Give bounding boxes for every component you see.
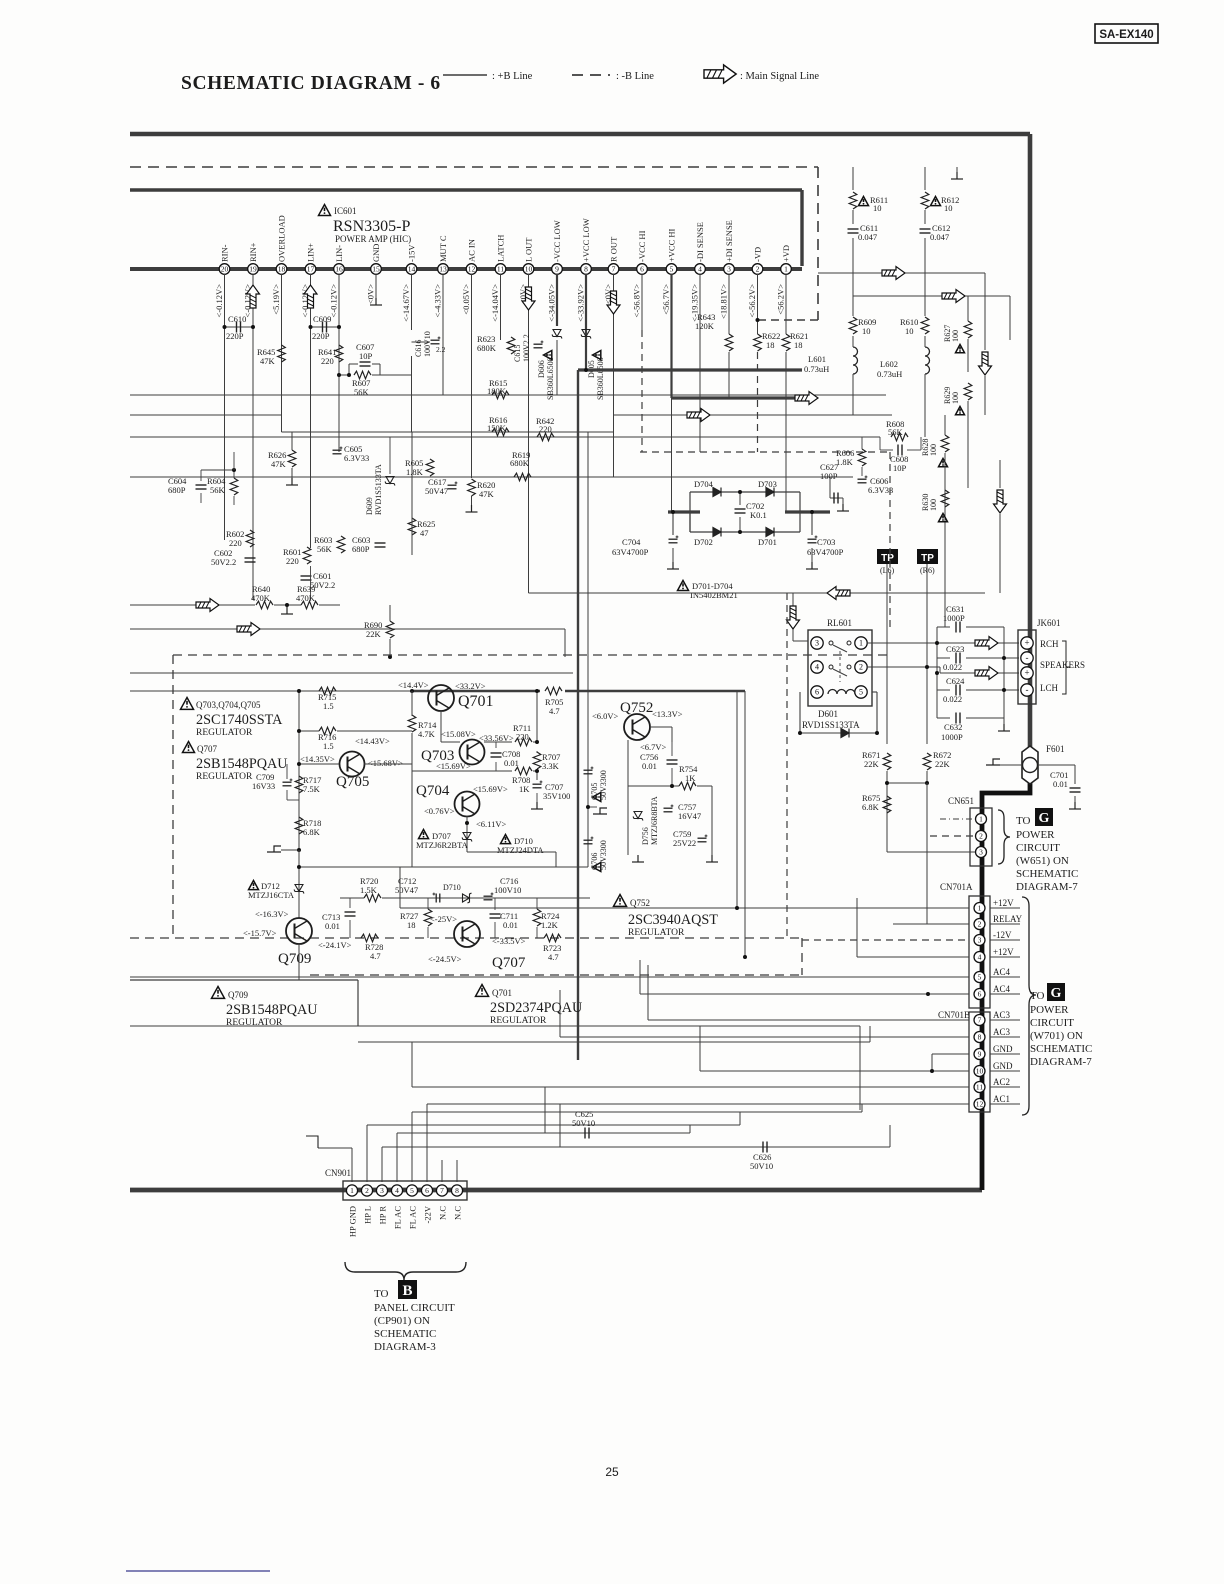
- svg-text:2SD2374PQAU: 2SD2374PQAU: [490, 1000, 582, 1016]
- wire pin6 drop dashed: [641, 330, 643, 452]
- svg-text:MTZJ6R2BTA: MTZJ6R2BTA: [416, 840, 469, 850]
- svg-text:150K: 150K: [487, 423, 507, 433]
- svg-text:<0.76V>: <0.76V>: [424, 806, 455, 816]
- svg-text:2: 2: [859, 663, 863, 672]
- svg-text:<-16.3V>: <-16.3V>: [255, 909, 289, 919]
- svg-text:F601: F601: [1046, 744, 1065, 754]
- svg-text:1.5: 1.5: [323, 741, 334, 751]
- svg-text:JK601: JK601: [1037, 618, 1061, 628]
- wire pin6 drop: [641, 274, 643, 330]
- svg-text:REGULATOR: REGULATOR: [196, 772, 253, 782]
- transistor Q707: [454, 921, 480, 947]
- diode D601: [799, 692, 801, 733]
- svg-text:3: 3: [380, 1186, 384, 1195]
- IC601 pin 9: [552, 264, 563, 275]
- wire C609 row: [311, 326, 340, 328]
- wire pin1 drop: [785, 274, 787, 334]
- wire bus y477: [130, 476, 853, 478]
- svg-text:D609: D609: [365, 497, 374, 515]
- svg-text:<-24.5V>: <-24.5V>: [428, 954, 462, 964]
- svg-text:50V47: 50V47: [425, 486, 448, 496]
- svg-text:Q709: Q709: [278, 951, 311, 967]
- svg-text:1.5: 1.5: [323, 701, 334, 711]
- wire CN901 p2: [366, 1125, 368, 1182]
- svg-text:POWER: POWER: [1016, 829, 1055, 841]
- vertical wire x588: [587, 432, 589, 867]
- svg-text:C623: C623: [946, 644, 964, 654]
- svg-text:RIN+: RIN+: [248, 242, 258, 262]
- wire x545 drop: [544, 1087, 546, 1133]
- wire y771: [412, 770, 512, 772]
- wire y1112: [412, 1111, 862, 1113]
- zener D756: [633, 812, 643, 821]
- +B bus top: [130, 132, 1030, 137]
- svg-text:8: 8: [978, 1033, 982, 1042]
- svg-text:L602: L602: [880, 359, 898, 369]
- IC601 pin 20: [219, 264, 230, 275]
- wire AC4 to p6: [640, 993, 969, 995]
- svg-text:REGULATOR: REGULATOR: [490, 1016, 547, 1026]
- resistor R609: [849, 317, 857, 334]
- ground Q752 b: [706, 855, 718, 862]
- svg-text:220: 220: [516, 732, 529, 742]
- IC601 pin 6: [637, 264, 648, 275]
- resistor R672: [923, 753, 931, 770]
- svg-text:CN651: CN651: [948, 796, 974, 806]
- svg-text:47K: 47K: [260, 356, 276, 366]
- svg-text:22K: 22K: [864, 759, 880, 769]
- svg-text:AC3: AC3: [993, 1010, 1011, 1020]
- wire LCH+ row: [940, 672, 1019, 674]
- resistor R723: [544, 934, 561, 942]
- wire y691: [130, 690, 412, 692]
- svg-text:100V2.2: 100V2.2: [522, 334, 531, 362]
- svg-text:RSN3305-P: RSN3305-P: [333, 218, 410, 235]
- svg-text:Q707: Q707: [492, 955, 526, 971]
- resistor R724: [533, 909, 541, 926]
- resistor R705: [545, 687, 562, 695]
- svg-text:50V47: 50V47: [395, 885, 418, 895]
- wire AC4 to p5: [130, 976, 969, 978]
- wire pin20 drop: [224, 274, 226, 540]
- test point TP (R6): [917, 549, 938, 564]
- svg-text:SCHEMATIC: SCHEMATIC: [1016, 868, 1078, 880]
- note Q709 2SB1548PQAU: [212, 987, 225, 999]
- svg-text:D703: D703: [758, 479, 777, 489]
- resistor R675: [883, 796, 891, 813]
- signal arrow RCH: [975, 637, 998, 650]
- svg-text:B: B: [402, 1283, 412, 1299]
- resistor R707: [533, 752, 541, 769]
- legend -B line: [572, 74, 610, 76]
- svg-text:22K: 22K: [366, 629, 382, 639]
- wire CN651 p1: [940, 818, 975, 820]
- svg-text:6: 6: [425, 1186, 429, 1195]
- IC601 pin 19: [248, 264, 259, 275]
- wire pin4 drop: [699, 274, 701, 452]
- Q701 base drop: [440, 711, 442, 742]
- svg-text:50V10: 50V10: [750, 1161, 773, 1171]
- svg-text:4: 4: [978, 953, 982, 962]
- svg-text:FL AC: FL AC: [408, 1206, 418, 1229]
- svg-text:DIAGRAM-7: DIAGRAM-7: [1030, 1056, 1092, 1068]
- note D701-D704: [678, 581, 689, 591]
- svg-text:D702: D702: [694, 537, 713, 547]
- note 2SC1740SSTA: [181, 698, 194, 710]
- svg-text:G: G: [1039, 811, 1050, 826]
- wire pin8 drop thick: [585, 274, 587, 370]
- resistor R621: [782, 334, 790, 351]
- dashed vertical x787: [786, 593, 788, 938]
- svg-text:RCH: RCH: [1040, 639, 1059, 649]
- svg-text:<13.3V>: <13.3V>: [652, 709, 683, 719]
- svg-text:1000P: 1000P: [943, 613, 965, 623]
- svg-text:L OUT: L OUT: [524, 237, 534, 262]
- wire bus y395: [130, 394, 886, 396]
- svg-text:DIAGRAM-3: DIAGRAM-3: [374, 1341, 436, 1353]
- IC601 pin 15: [371, 264, 382, 275]
- transistor Q705: [340, 752, 365, 777]
- svg-text:100: 100: [951, 330, 960, 342]
- wire CN901 p1: [351, 1148, 353, 1182]
- svg-text:MTZJ6R8BTA: MTZJ6R8BTA: [650, 796, 659, 845]
- -B bus dashed: [130, 166, 818, 168]
- svg-text:220: 220: [229, 538, 242, 548]
- svg-text:MUT C: MUT C: [438, 235, 448, 262]
- svg-text:PANEL CIRCUIT: PANEL CIRCUIT: [374, 1302, 455, 1314]
- svg-text:<-33.5V>: <-33.5V>: [492, 936, 526, 946]
- svg-text:C703: C703: [817, 537, 835, 547]
- svg-text:63V4700P: 63V4700P: [612, 547, 649, 557]
- wire left entry y605: [130, 604, 255, 606]
- wire x745: [744, 691, 746, 957]
- svg-text:2SC1740SSTA: 2SC1740SSTA: [196, 712, 283, 728]
- svg-text:2: 2: [979, 832, 983, 841]
- svg-text:+VCC HI: +VCC HI: [667, 228, 677, 262]
- svg-text:180K: 180K: [487, 386, 507, 396]
- svg-text:-12V: -12V: [993, 930, 1012, 940]
- svg-text:<-0.12V>: <-0.12V>: [329, 284, 339, 318]
- wire CN901 p8 stub: [456, 1160, 458, 1182]
- svg-text:TO: TO: [1016, 815, 1031, 827]
- note 2SC3940AQST: [614, 895, 627, 907]
- svg-text:(CP901) ON: (CP901) ON: [374, 1315, 430, 1327]
- svg-text:220: 220: [321, 356, 334, 366]
- svg-text:6: 6: [640, 265, 644, 274]
- svg-text:220P: 220P: [226, 331, 244, 341]
- svg-text:RIN-: RIN-: [220, 244, 230, 262]
- wire pin5 drop thick: [670, 274, 672, 398]
- svg-text:2.2: 2.2: [436, 345, 446, 354]
- svg-text:+12V: +12V: [993, 947, 1014, 957]
- legend main signal arrow: [704, 65, 736, 83]
- IC601 pin 7: [608, 264, 619, 275]
- signal arrow down relay: [787, 606, 800, 629]
- svg-text:<56.7V>: <56.7V>: [661, 284, 671, 315]
- svg-text:1K: 1K: [685, 773, 696, 783]
- svg-text:N.C: N.C: [453, 1206, 463, 1220]
- svg-text:16V47: 16V47: [678, 811, 701, 821]
- svg-text:6: 6: [815, 688, 819, 697]
- svg-text:2: 2: [756, 265, 760, 274]
- resistor R715: [319, 687, 336, 695]
- svg-text:GND: GND: [993, 1061, 1013, 1071]
- wire pin19 drop: [252, 274, 254, 600]
- svg-text:SCHEMATIC DIAGRAM - 6: SCHEMATIC DIAGRAM - 6: [181, 73, 441, 94]
- capacitor C702: [739, 492, 741, 505]
- svg-text:2SB1548PQAU: 2SB1548PQAU: [226, 1002, 317, 1018]
- capacitor C624: [956, 685, 960, 696]
- svg-text:N.C: N.C: [438, 1206, 448, 1220]
- capacitor C623: [956, 653, 960, 664]
- relay contacts: [829, 641, 833, 645]
- diode D703: [766, 488, 774, 497]
- legend +B line: [443, 74, 487, 76]
- svg-text:<-56.8V>: <-56.8V>: [632, 284, 642, 318]
- model number box SA-EX140: [1095, 24, 1158, 43]
- svg-text:0.01: 0.01: [325, 921, 340, 931]
- svg-text:<56.2V>: <56.2V>: [776, 284, 786, 315]
- svg-text:TO: TO: [374, 1288, 389, 1300]
- svg-text:<15.69V>: <15.69V>: [473, 784, 508, 794]
- svg-text:0.047: 0.047: [930, 232, 949, 242]
- svg-text:AC4: AC4: [993, 967, 1011, 977]
- svg-text:IN5402BM21: IN5402BM21: [690, 590, 738, 600]
- svg-text:+12V: +12V: [993, 898, 1014, 908]
- svg-text:-VCC LOW: -VCC LOW: [552, 220, 562, 262]
- speaker bracket: [1062, 641, 1070, 694]
- svg-text:7: 7: [440, 1186, 444, 1195]
- fuse F601: [1022, 746, 1038, 784]
- svg-text:CN701B: CN701B: [938, 1010, 970, 1020]
- svg-text:220P: 220P: [312, 331, 330, 341]
- svg-text:AC1: AC1: [993, 1094, 1010, 1104]
- wire pin2 drop: [757, 274, 759, 334]
- svg-text:Q709: Q709: [228, 990, 248, 1000]
- thick power line to connectors: [982, 748, 1030, 1190]
- wire bus y437: [130, 436, 880, 438]
- note D710: [501, 835, 511, 844]
- svg-text:TP: TP: [881, 553, 894, 564]
- resistor R718: [295, 817, 303, 834]
- svg-text:9: 9: [978, 1050, 982, 1059]
- svg-text:16: 16: [335, 265, 343, 274]
- svg-text:2: 2: [978, 920, 982, 929]
- capacitor C625: [585, 1128, 589, 1139]
- bridge left node thick: [668, 510, 700, 513]
- svg-text:6.8K: 6.8K: [862, 802, 880, 812]
- wire pin12 drop: [471, 274, 473, 478]
- svg-text:SPEAKERS: SPEAKERS: [1040, 660, 1085, 670]
- svg-text:<-15.7V>: <-15.7V>: [243, 928, 277, 938]
- svg-text:(W701) ON: (W701) ON: [1030, 1030, 1083, 1042]
- resistor R625: [408, 518, 416, 535]
- svg-text:<33.2V>: <33.2V>: [455, 681, 486, 691]
- -B dashed y452: [640, 451, 892, 453]
- svg-text:10: 10: [873, 203, 882, 213]
- wire y1125: [367, 1124, 740, 1126]
- svg-text:MTZJ24DTA: MTZJ24DTA: [497, 845, 544, 855]
- svg-text:100P: 100P: [820, 471, 838, 481]
- svg-text:47K: 47K: [479, 489, 495, 499]
- svg-text:11: 11: [497, 265, 504, 274]
- svg-text:SA-EX140: SA-EX140: [1099, 29, 1153, 41]
- svg-text:Q705: Q705: [336, 774, 369, 790]
- diode D704: [713, 488, 721, 497]
- svg-text:0.022: 0.022: [943, 694, 962, 704]
- svg-text:680P: 680P: [352, 544, 370, 554]
- bottom border thick: [130, 1188, 982, 1193]
- wire pin10 drop: [528, 274, 530, 593]
- svg-text:470K: 470K: [296, 593, 316, 603]
- wire GND p10: [700, 1070, 969, 1072]
- svg-text:56K: 56K: [888, 427, 904, 437]
- svg-text:-VCC HI: -VCC HI: [637, 230, 647, 262]
- wire y593: [529, 592, 986, 594]
- wire left entry y629: [130, 628, 565, 630]
- svg-text:5: 5: [859, 688, 863, 697]
- signal arrows right top: [818, 272, 985, 274]
- bridge right node thick: [785, 510, 830, 513]
- capacitor C610: [237, 322, 241, 333]
- svg-text:470K: 470K: [251, 593, 271, 603]
- wire AC1 to p12: [427, 1103, 969, 1105]
- svg-text:CIRCUIT: CIRCUIT: [1030, 1017, 1074, 1029]
- -B dashed left x173: [172, 655, 174, 938]
- svg-text:R OUT: R OUT: [609, 236, 619, 262]
- wire AC3 to p8: [560, 1036, 969, 1038]
- svg-text:Q707: Q707: [197, 744, 217, 754]
- svg-text:Q752: Q752: [620, 700, 653, 716]
- svg-text:G: G: [1051, 986, 1062, 1001]
- svg-text:10P: 10P: [893, 463, 907, 473]
- footer mark: [126, 1570, 270, 1572]
- svg-text:<15.69V>: <15.69V>: [436, 761, 471, 771]
- svg-text:18: 18: [766, 340, 775, 350]
- resistor R728: [361, 934, 378, 942]
- speaker net box: [936, 627, 938, 718]
- wire AC3 to p7: [648, 1019, 969, 1021]
- IC601 pin 3: [724, 264, 735, 275]
- svg-text:(W651) ON: (W651) ON: [1016, 855, 1069, 867]
- dashed to CN701 -12V: [802, 939, 969, 941]
- svg-text:+: +: [1024, 668, 1029, 678]
- svg-text:<14.43V>: <14.43V>: [355, 736, 390, 746]
- svg-text:D756: D756: [641, 827, 650, 845]
- wire R607 row: [339, 374, 349, 376]
- svg-text:7: 7: [612, 265, 616, 274]
- -B dashed y975: [310, 974, 802, 976]
- -B dashed drop x802: [801, 938, 803, 975]
- -B dashed seg: [758, 319, 818, 321]
- svg-text:<-14.67V>: <-14.67V>: [401, 284, 411, 322]
- svg-text:2: 2: [365, 1186, 369, 1195]
- svg-text:RVD1SS133TA: RVD1SS133TA: [802, 720, 860, 730]
- wire y867: [299, 866, 412, 868]
- ground Q752 a: [632, 855, 644, 862]
- relay pin2 out: [867, 666, 940, 668]
- svg-text:0.01: 0.01: [504, 758, 519, 768]
- wire pin16 drop: [338, 274, 340, 452]
- svg-text:<-14.04V>: <-14.04V>: [490, 284, 500, 322]
- dashed x890: [889, 452, 891, 627]
- svg-text:<-25V>: <-25V>: [430, 914, 457, 924]
- svg-text:35V100: 35V100: [543, 791, 570, 801]
- -B dashed y938: [130, 937, 802, 939]
- svg-text:<15.68V>: <15.68V>: [368, 758, 403, 768]
- svg-text:FL AC: FL AC: [393, 1206, 403, 1229]
- svg-text:Q701: Q701: [458, 693, 494, 710]
- capacitor C627: [830, 497, 843, 499]
- svg-text:<-0.12V>: <-0.12V>: [214, 284, 224, 318]
- svg-text:0.73uH: 0.73uH: [877, 369, 902, 379]
- wire C610 row: [225, 326, 254, 328]
- transistor Q704: [455, 792, 480, 817]
- svg-text:1000P: 1000P: [941, 732, 963, 742]
- wire GND p9: [932, 1053, 969, 1055]
- svg-text:25V22: 25V22: [673, 838, 696, 848]
- svg-text:<6.0V>: <6.0V>: [592, 711, 619, 721]
- svg-text:LATCH: LATCH: [496, 235, 506, 262]
- svg-text:RVD1S5133TA: RVD1S5133TA: [374, 464, 383, 515]
- svg-text:18: 18: [794, 340, 803, 350]
- wire pin17 drop: [310, 274, 312, 548]
- resistor R620: [468, 479, 476, 496]
- svg-text:AC2: AC2: [993, 1077, 1010, 1087]
- svg-text:+DI SENSE: +DI SENSE: [724, 220, 734, 262]
- svg-text:D701: D701: [758, 537, 777, 547]
- right border thick: [1028, 134, 1033, 750]
- wire pin10 net to relay: [792, 593, 794, 641]
- resistor R628: [941, 435, 949, 452]
- relay coil: [828, 690, 855, 695]
- wire CN651 p3: [887, 851, 975, 853]
- svg-text:16V33: 16V33: [252, 781, 275, 791]
- diode D701: [766, 528, 774, 537]
- svg-text:680K: 680K: [510, 458, 530, 468]
- svg-text:D704: D704: [694, 479, 714, 489]
- signal arrow up pin19: [247, 285, 260, 308]
- ground pin15: [370, 298, 382, 305]
- CN651 brace: [998, 810, 1010, 864]
- svg-text:1.2K: 1.2K: [541, 920, 559, 930]
- signal arrow down x985: [979, 352, 992, 375]
- capacitor C611: [848, 229, 859, 233]
- svg-text:REGULATOR: REGULATOR: [196, 728, 253, 738]
- svg-text:-22V: -22V: [423, 1205, 433, 1223]
- wire CN901 p5: [411, 1112, 413, 1182]
- svg-text:10: 10: [976, 1067, 984, 1076]
- svg-text:10: 10: [525, 265, 533, 274]
- wire CN901 p4: [396, 1133, 398, 1182]
- signal arrow down pin10: [522, 287, 535, 310]
- svg-text:4.7: 4.7: [549, 706, 560, 716]
- svg-text:220: 220: [286, 556, 299, 566]
- svg-text:GND: GND: [371, 244, 381, 262]
- IC601 pin 16: [334, 264, 345, 275]
- svg-text:<-4.33V>: <-4.33V>: [433, 284, 443, 318]
- svg-text:18: 18: [407, 920, 416, 930]
- test point TP (L6): [877, 549, 898, 564]
- svg-text:6.8K: 6.8K: [303, 827, 321, 837]
- IC601 pin 12: [466, 264, 477, 275]
- svg-text:10: 10: [905, 326, 914, 336]
- svg-text:C609: C609: [313, 314, 331, 324]
- svg-text:GND: GND: [993, 1044, 1013, 1054]
- svg-text:<14.4V>: <14.4V>: [398, 680, 429, 690]
- svg-text:L601: L601: [808, 354, 826, 364]
- svg-text:2SB1548PQAU: 2SB1548PQAU: [196, 756, 287, 772]
